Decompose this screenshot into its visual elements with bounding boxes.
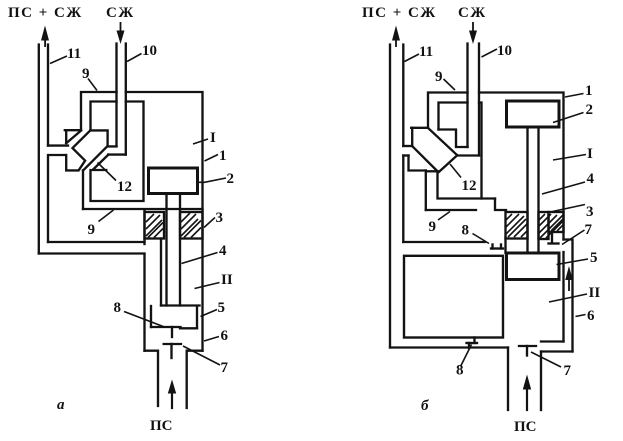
svg-text:II: II <box>221 272 233 288</box>
svg-text:4: 4 <box>219 243 227 259</box>
svg-text:8: 8 <box>456 363 464 379</box>
svg-text:11: 11 <box>67 46 81 62</box>
svg-text:СЖ: СЖ <box>106 5 135 21</box>
svg-text:3: 3 <box>586 204 594 220</box>
svg-text:7: 7 <box>585 222 593 238</box>
svg-text:6: 6 <box>587 308 595 324</box>
svg-text:6: 6 <box>221 328 229 344</box>
svg-text:4: 4 <box>587 171 595 187</box>
svg-text:2: 2 <box>586 102 594 118</box>
svg-text:7: 7 <box>564 363 572 379</box>
svg-text:5: 5 <box>590 250 598 266</box>
svg-text:11: 11 <box>419 44 433 60</box>
svg-text:3: 3 <box>216 210 224 226</box>
svg-text:2: 2 <box>227 171 235 187</box>
svg-text:ПС: ПС <box>514 419 537 435</box>
svg-text:8: 8 <box>462 223 470 239</box>
svg-text:9: 9 <box>88 222 96 238</box>
svg-text:1: 1 <box>585 83 593 99</box>
svg-text:12: 12 <box>462 178 477 194</box>
svg-text:5: 5 <box>218 300 226 316</box>
svg-text:б: б <box>421 398 429 414</box>
svg-text:II: II <box>589 285 601 301</box>
svg-text:7: 7 <box>221 360 229 376</box>
svg-text:9: 9 <box>429 219 437 235</box>
svg-text:10: 10 <box>497 43 512 59</box>
svg-text:I: I <box>210 130 216 146</box>
svg-text:СЖ: СЖ <box>458 5 487 21</box>
svg-text:9: 9 <box>435 69 443 85</box>
svg-text:8: 8 <box>114 300 122 316</box>
svg-text:ПС + СЖ: ПС + СЖ <box>362 5 437 21</box>
svg-text:I: I <box>587 146 593 162</box>
svg-text:10: 10 <box>142 43 157 59</box>
svg-text:а: а <box>57 397 65 413</box>
svg-text:ПС + СЖ: ПС + СЖ <box>8 5 83 21</box>
svg-text:12: 12 <box>117 179 132 195</box>
svg-text:9: 9 <box>82 66 90 82</box>
svg-text:ПС: ПС <box>150 418 173 434</box>
svg-text:1: 1 <box>219 148 227 164</box>
